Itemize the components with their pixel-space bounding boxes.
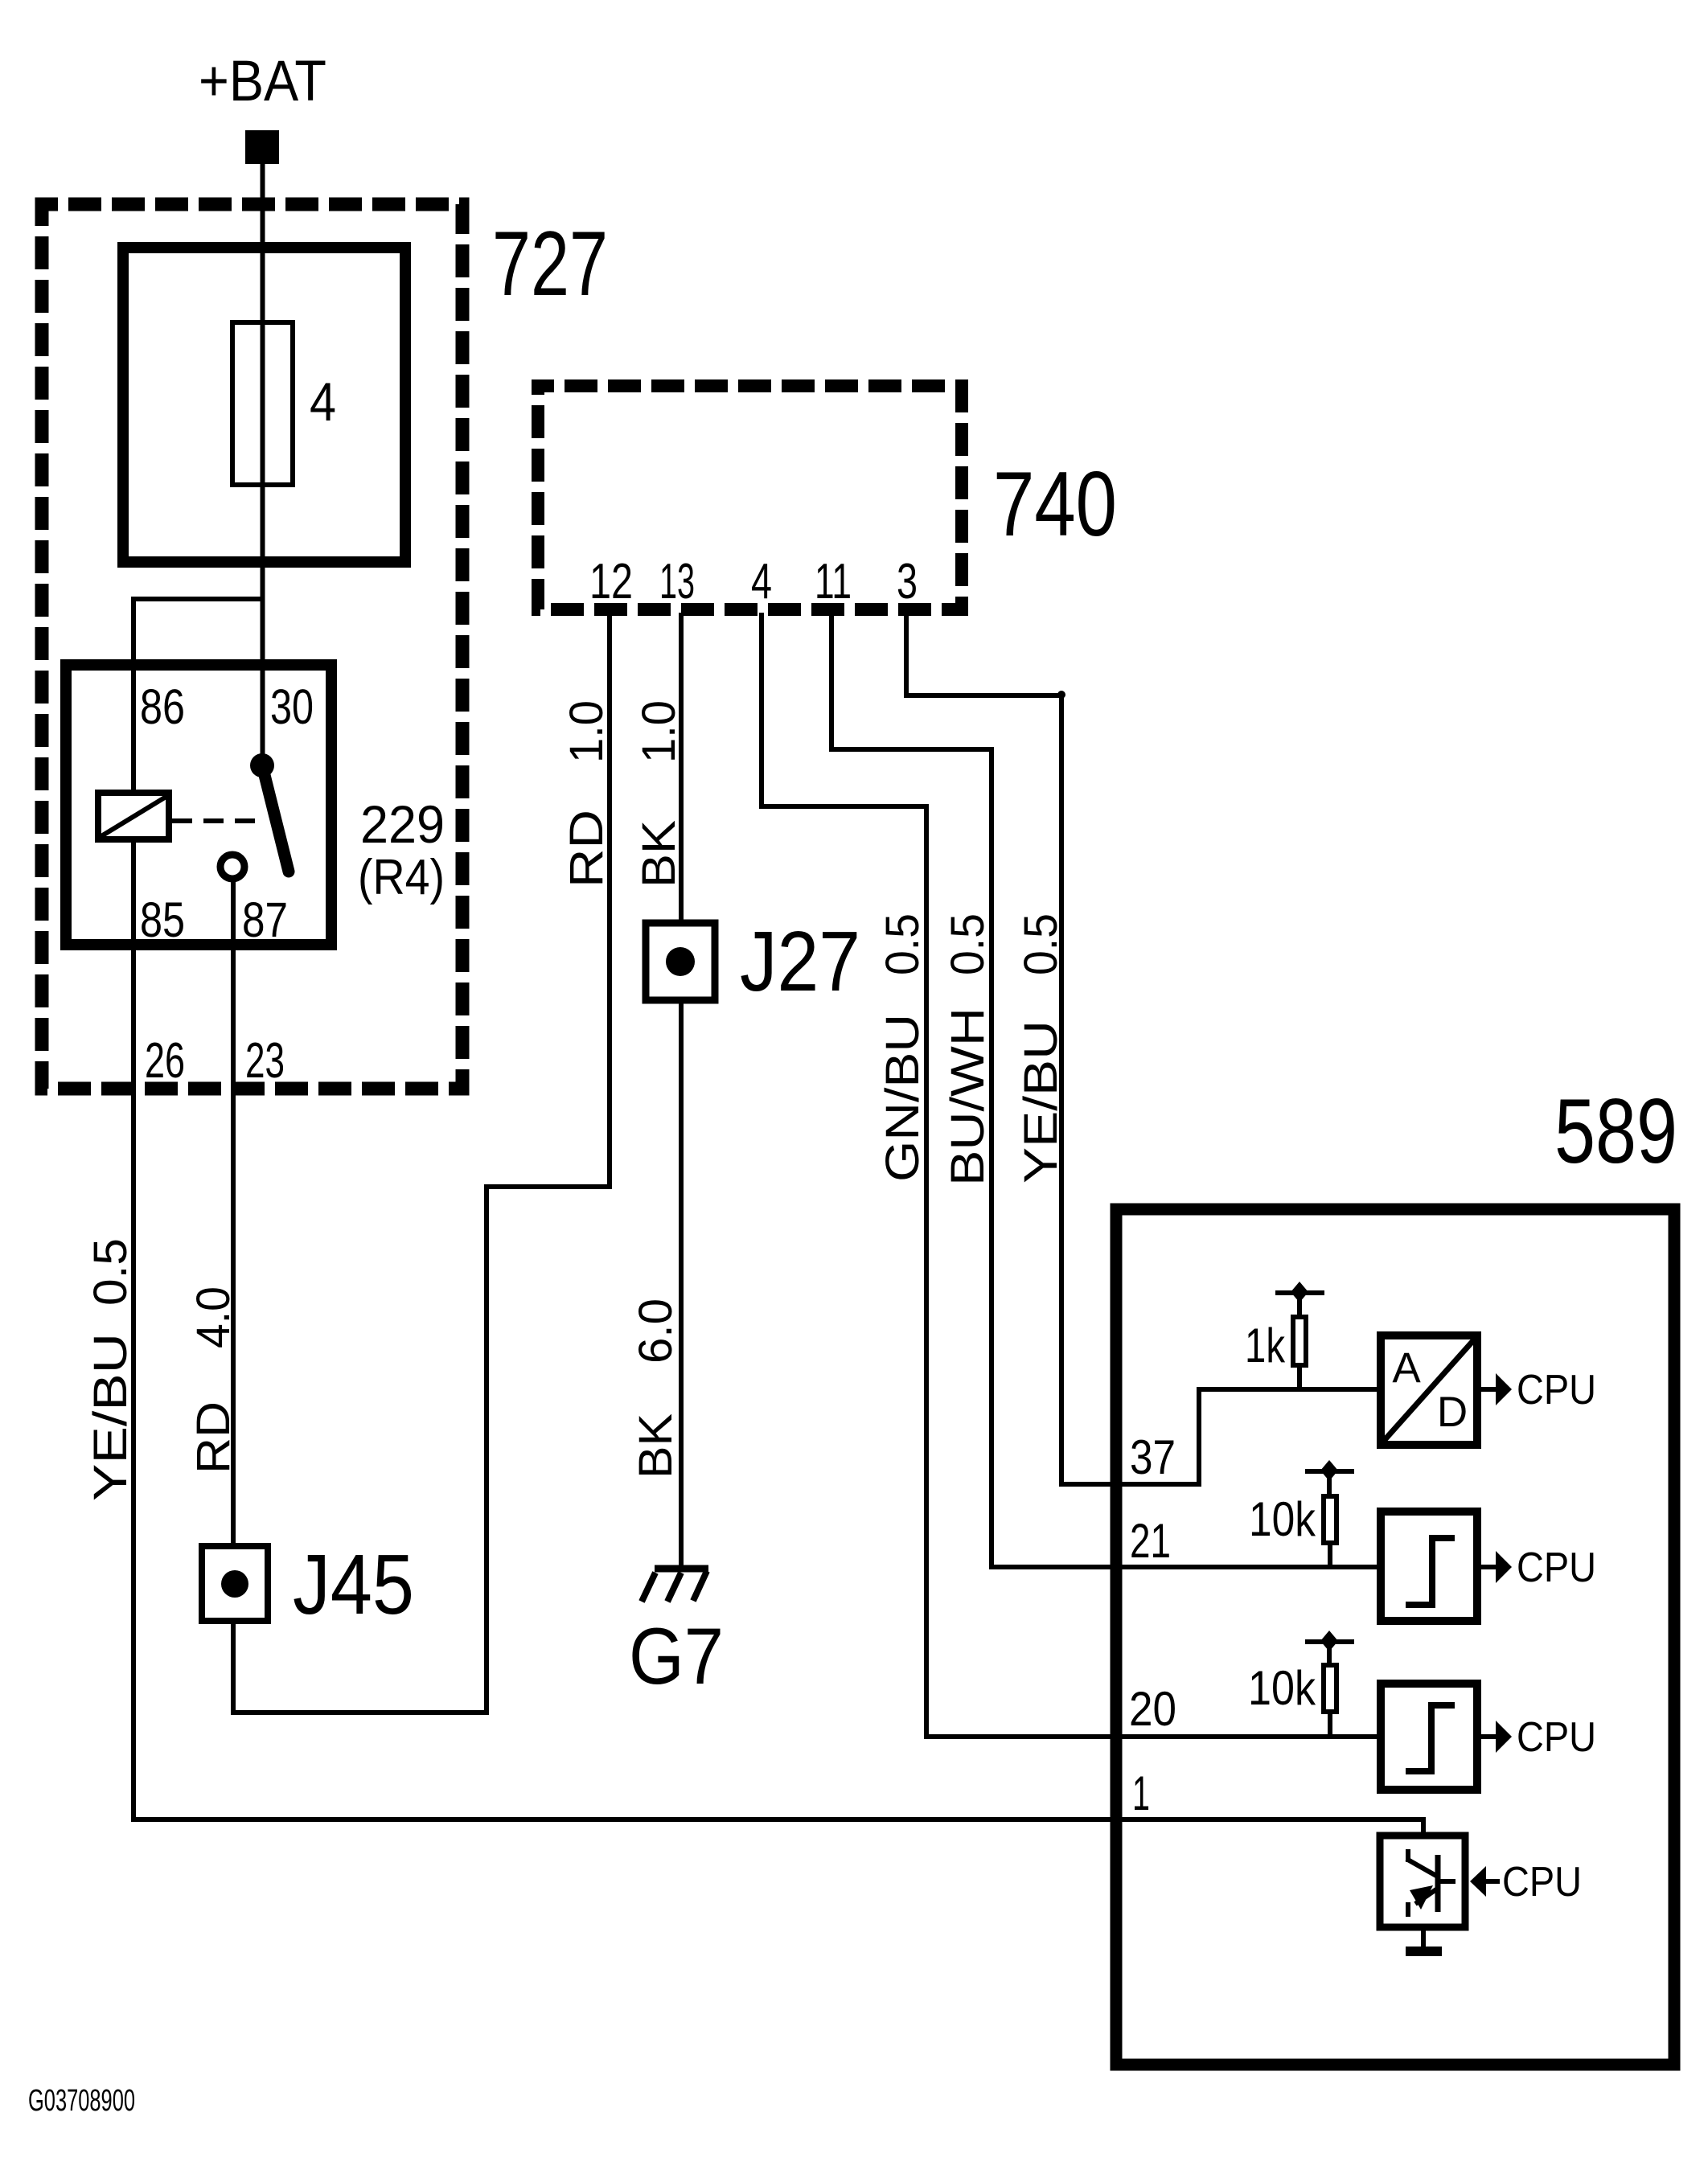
svg-text:3: 3 (897, 554, 918, 609)
relay coil-contact dashed link (172, 818, 259, 823)
relay coil (98, 793, 169, 839)
relay switch pivot dot (250, 753, 274, 777)
svg-text:1.0: 1.0 (633, 700, 685, 763)
relay switch blade (262, 765, 289, 872)
svg-text:6.0: 6.0 (630, 1298, 682, 1364)
svg-text:4.0: 4.0 (187, 1286, 240, 1348)
svg-text:RD: RD (560, 810, 613, 888)
wire branch to relay pin 86 coil (133, 599, 263, 790)
svg-text:GN/BU: GN/BU (877, 1014, 929, 1182)
node +BAT terminal square (245, 130, 279, 164)
svg-text:A: A (1392, 1344, 1421, 1392)
svg-text:30: 30 (270, 679, 314, 734)
dashed component box 727 (42, 204, 462, 1089)
wire 740 pin 13 BK 1.0 to splice J27 (679, 613, 684, 922)
resistor 10k row 3 (1324, 1665, 1336, 1712)
svg-text:BK: BK (630, 1413, 682, 1479)
wire A/D output with arrow to CPU (1481, 1373, 1512, 1405)
svg-text:CPU: CPU (1517, 1545, 1596, 1591)
dashed component box 740 (538, 386, 962, 609)
splice J27 (646, 923, 715, 1000)
resistor 10k row 2 (1324, 1496, 1336, 1543)
svg-text:+BAT: +BAT (199, 50, 326, 113)
svg-text:85: 85 (140, 892, 185, 947)
resistor 1k (1293, 1317, 1306, 1365)
schmitt trigger U3 (1381, 1684, 1477, 1790)
svg-text:23: 23 (245, 1033, 285, 1089)
junction dot pin 3 wire corner (1057, 691, 1065, 699)
svg-text:87: 87 (242, 892, 288, 947)
wire schmitt U3 output with arrow to CPU (1481, 1721, 1512, 1753)
svg-text:0.5: 0.5 (84, 1238, 137, 1306)
wire relay 87 pin 23 RD 4.0 to splice J45 (231, 879, 236, 1546)
svg-text:86: 86 (140, 679, 185, 734)
svg-text:0.5: 0.5 (1015, 913, 1067, 975)
wire resistor 10k row 2 to node (1328, 1543, 1332, 1569)
svg-text:229: 229 (360, 794, 445, 854)
wire label BK 6.0 (630, 1298, 682, 1479)
A/D converter U1 (1381, 1335, 1477, 1445)
wire 740 pin 3 YE/BU 0.5 to 589 pin 37 (906, 613, 1381, 1484)
svg-text:YE/BU: YE/BU (84, 1333, 137, 1501)
svg-text:0.5: 0.5 (942, 913, 994, 975)
splice J45 (202, 1546, 268, 1621)
svg-text:CPU: CPU (1517, 1367, 1596, 1413)
svg-text:0.5: 0.5 (877, 913, 929, 975)
svg-text:589: 589 (1554, 1081, 1677, 1183)
svg-text:4: 4 (751, 554, 772, 609)
control module box 589 (1116, 1209, 1674, 2065)
wire label BU/WH 0.5 (942, 913, 994, 1186)
ground G7 symbol (642, 1569, 708, 1602)
svg-text:BU/WH: BU/WH (942, 1007, 994, 1186)
relay contact 87 circle (220, 855, 244, 879)
svg-text:12: 12 (589, 554, 633, 609)
wire 740 pin 4 GN/BU 0.5 to 589 pin 20 (762, 613, 1381, 1737)
wire label RD 1.0 (560, 700, 613, 888)
svg-text:1k: 1k (1245, 1319, 1286, 1372)
svg-text:CPU: CPU (1502, 1859, 1582, 1906)
svg-text:740: 740 (993, 453, 1117, 556)
wire label BK 1.0 (633, 700, 685, 888)
wire splice J27 BK 6.0 to ground G7 (679, 1001, 684, 1566)
svg-text:21: 21 (1130, 1514, 1171, 1568)
wire label RD 4.0 (187, 1286, 240, 1474)
svg-text:13: 13 (659, 554, 695, 609)
svg-text:26: 26 (145, 1033, 185, 1089)
svg-text:J27: J27 (740, 914, 860, 1009)
svg-text:CPU: CPU (1517, 1714, 1596, 1761)
svg-text:37: 37 (1130, 1430, 1176, 1484)
svg-text:BK: BK (633, 820, 685, 888)
svg-text:G7: G7 (629, 1611, 724, 1700)
power node row 2 (1305, 1460, 1354, 1498)
svg-text:RD: RD (187, 1401, 240, 1474)
wire +BAT to fuse and relay pin 30 (261, 160, 265, 765)
svg-text:1.0: 1.0 (560, 700, 613, 763)
wire label YE/BU 0.5 right (1015, 913, 1067, 1184)
svg-text:10k: 10k (1249, 1492, 1316, 1546)
relay 229 (R4) box (66, 665, 331, 945)
svg-text:(R4): (R4) (358, 850, 445, 905)
wire CPU input arrow into optocoupler (1470, 1866, 1500, 1897)
ground optocoupler (1406, 1927, 1442, 1956)
svg-text:D: D (1437, 1389, 1468, 1436)
wire schmitt U2 output with arrow to CPU (1481, 1551, 1512, 1583)
wire resistor 1k to node (1297, 1365, 1302, 1392)
wire 740 pin 11 BU/WH 0.5 to 589 pin 21 (831, 613, 1381, 1567)
svg-text:G03708900: G03708900 (28, 2084, 135, 2118)
optocoupler U4 (1380, 1836, 1465, 1927)
fuse F4 element (232, 322, 293, 485)
wire splice J45 to 740 pin 12 RD 1.0 (233, 613, 610, 1713)
wire label YE/BU 0.5 left (84, 1238, 137, 1501)
power node row 3 (1305, 1631, 1354, 1667)
wire relay 85 pin 26 YE/BU to 589 pin 1 (133, 842, 1423, 1836)
svg-text:4: 4 (310, 371, 336, 433)
wire resistor 10k row 3 to node (1328, 1712, 1332, 1738)
svg-text:727: 727 (492, 213, 608, 315)
schmitt trigger U2 (1381, 1512, 1477, 1621)
wire label GN/BU 0.5 (877, 913, 929, 1182)
fuse holder box 727 inner (123, 248, 405, 562)
power node row 1 (1275, 1282, 1324, 1319)
svg-text:1: 1 (1132, 1766, 1150, 1820)
svg-text:20: 20 (1129, 1682, 1176, 1736)
svg-text:10k: 10k (1248, 1661, 1316, 1715)
svg-text:YE/BU: YE/BU (1015, 1020, 1067, 1184)
svg-text:11: 11 (815, 554, 852, 609)
svg-text:J45: J45 (293, 1537, 414, 1632)
